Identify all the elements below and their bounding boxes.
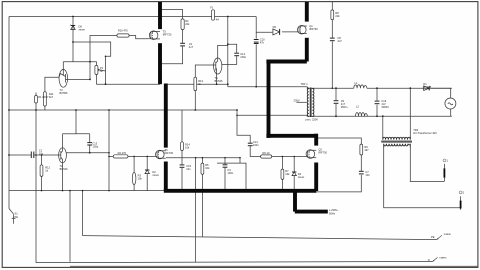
- svg-text:BC546: BC546: [215, 79, 223, 83]
- svg-text:zener: zener: [79, 28, 86, 32]
- wire D5 to Q1 gate: [282, 31, 299, 33]
- resistor R3: [132, 172, 136, 184]
- resistor R5: [201, 163, 204, 174]
- transistor Q5 mosfet: [155, 150, 166, 159]
- svg-text:IRF730: IRF730: [318, 150, 327, 154]
- resistor R1 sense: [35, 96, 38, 104]
- electrode E1: [443, 159, 446, 182]
- fuse F1 on top bus: [212, 10, 215, 20]
- svg-text:4n7: 4n7: [337, 39, 342, 43]
- junction bottom rail nodes: [41, 190, 110, 192]
- wire TR1 tap stub: [297, 101, 307, 103]
- wire thick segment F Q2 source: [314, 163, 318, 192]
- junction HV bus nodes: [236, 87, 411, 117]
- wire C16 column: [376, 88, 378, 100]
- wire x109 link: [108, 110, 110, 191]
- svg-text:10k: 10k: [138, 177, 143, 181]
- wire HV bottom bus y116.2: [236, 110, 238, 115]
- wire C13 column x89.7: [89, 134, 91, 142]
- diode D5: [273, 29, 280, 35]
- wire R8 C8 column x332.3: [331, 2, 333, 10]
- svg-text:mains: mains: [444, 232, 452, 236]
- wire D2 column: [146, 156, 148, 169]
- resistor R14: [181, 142, 184, 151]
- svg-text:250V~: 250V~: [341, 105, 349, 109]
- capacitor C8: [330, 38, 335, 41]
- svg-text:PE: PE: [431, 235, 435, 239]
- resistor R2: [113, 155, 128, 158]
- potentiometer P1: [95, 65, 99, 74]
- wire x90 column R10 feed: [90, 36, 117, 80]
- wire bottom rail thin: [9, 190, 164, 192]
- svg-text:10u: 10u: [39, 152, 44, 156]
- PE arrow: [437, 235, 442, 239]
- svg-text:L 230V~: L 230V~: [329, 208, 339, 212]
- junction mid rail nodes: [8, 109, 238, 111]
- resistor R9: [360, 144, 363, 155]
- wire T2 emitter: [62, 163, 64, 191]
- wire thick segment L Q1 drain to top: [305, 2, 309, 22]
- svg-text:IRF730: IRF730: [309, 27, 318, 31]
- svg-text:10k: 10k: [185, 145, 190, 149]
- wire thick HT rail segment A top: [158, 2, 162, 29]
- svg-text:R6 10: R6 10: [263, 151, 270, 155]
- svg-text:prim. 230V: prim. 230V: [306, 118, 319, 122]
- svg-text:PE: PE: [15, 215, 19, 219]
- wire T3 collector bus y61.7: [63, 62, 96, 66]
- wire thick bottom rail segment E: [164, 189, 317, 193]
- svg-text:100n: 100n: [227, 171, 233, 175]
- svg-text:R10 470: R10 470: [118, 29, 128, 33]
- wire Q2 gate chain from x237: [237, 115, 250, 143]
- svg-text:4A: 4A: [216, 18, 219, 22]
- wire x76 link to T2 stage: [76, 110, 90, 134]
- transformer TR2: [381, 136, 412, 147]
- wire R7 column: [281, 157, 283, 170]
- wire R5 column x200.4 to PE: [201, 158, 203, 163]
- wire thick mains L drop: [293, 191, 297, 212]
- svg-text:50Hz: 50Hz: [329, 212, 336, 216]
- wire C9 column: [335, 88, 337, 100]
- diode D1: [423, 86, 430, 91]
- svg-text:HV-Transformer 4kV: HV-Transformer 4kV: [413, 131, 437, 135]
- wire pot bottom drive y84: [95, 75, 97, 85]
- wire TR2 primary right feed: [409, 88, 411, 136]
- transformer TR1: [307, 87, 314, 117]
- svg-text:22k: 22k: [335, 14, 340, 18]
- wire N line: [36, 262, 433, 263]
- wire TR1 left top feed y86.7: [228, 86, 307, 88]
- wire C2 bottom to thick: [161, 47, 183, 64]
- wire x256 column bus corner: [256, 17, 272, 33]
- wire T3 emitter to R11: [45, 77, 59, 92]
- wire D1 to load circle: [431, 88, 450, 98]
- svg-text:zener: zener: [152, 173, 159, 177]
- wire R3 column: [133, 156, 135, 172]
- wire x36 down to N line: [35, 110, 37, 263]
- resistor R12: [40, 165, 43, 177]
- capacitor C10: [254, 40, 259, 44]
- svg-text:10n: 10n: [365, 173, 370, 177]
- wire TR2 primary left feed: [382, 116, 384, 136]
- junction driver stage nodes: [72, 41, 257, 88]
- capacitor C16: [375, 101, 380, 104]
- svg-text:BC546: BC546: [60, 167, 68, 171]
- transistor D4 mosfet: [148, 31, 160, 40]
- svg-text:3000V: 3000V: [381, 105, 389, 109]
- wire thick segment G Q2 drain: [314, 134, 318, 146]
- wire HV top bus y88.2: [307, 87, 354, 89]
- svg-text:D5: D5: [273, 25, 277, 29]
- wire thick segment C jog: [164, 84, 168, 148]
- capacitor C15: [180, 165, 185, 167]
- wire thick segment D below Q5: [164, 162, 168, 192]
- wire thick segment H horizontal y136.5: [266, 134, 316, 138]
- wire x70 to N: [69, 191, 71, 262]
- wire D6 column x73: [72, 17, 74, 62]
- wire left rail x9: [8, 17, 10, 209]
- wire T4 emitter: [216, 74, 218, 84]
- wire node A y42 to pot feed: [73, 42, 111, 84]
- wire x82.5 to PE: [82, 191, 84, 236]
- svg-text:10n: 10n: [186, 167, 191, 171]
- wire T2 out to R2 and Q5 gate: [66, 152, 109, 154]
- diode D2 zener: [145, 170, 149, 174]
- junction lower gate row nodes: [8, 152, 295, 159]
- resistor R7: [281, 169, 284, 179]
- svg-text:IRF730: IRF730: [163, 33, 172, 37]
- svg-text:100n: 100n: [253, 143, 259, 147]
- svg-text:230V: 230V: [294, 98, 300, 102]
- resistor R8: [331, 10, 334, 20]
- wire R13 column and T4 base: [195, 65, 213, 77]
- junction top bus nodes: [72, 16, 229, 18]
- svg-text:BC556: BC556: [60, 91, 68, 95]
- transistor T2: [59, 148, 67, 163]
- capacitor C2: [180, 43, 185, 46]
- transistor T4: [214, 58, 222, 74]
- inductor L1: [354, 85, 367, 88]
- wire snubber R9 C7 across Q2: [317, 138, 362, 144]
- wire C12 branch: [228, 44, 237, 52]
- wire x240 x246 link: [240, 158, 246, 191]
- svg-text:mains: mains: [440, 256, 448, 260]
- resistor R10: [117, 34, 129, 37]
- wire x227.8 column: [227, 17, 229, 87]
- diode D6 zener: [70, 25, 75, 30]
- transistor Q2 mosfet: [303, 150, 316, 159]
- capacitor C14: [248, 143, 253, 146]
- wire D3 column: [293, 157, 295, 173]
- resistor R4: [181, 19, 184, 30]
- svg-text:22k: 22k: [185, 22, 190, 26]
- svg-text:TRF 1: TRF 1: [301, 82, 309, 86]
- svg-text:S1: S1: [15, 212, 19, 216]
- capacitor C7: [359, 171, 364, 174]
- wire R12 column: [41, 155, 43, 165]
- resistor R6: [261, 155, 272, 158]
- wire R1 column x36: [35, 93, 37, 96]
- svg-text:4k7: 4k7: [49, 95, 54, 99]
- wire T4 collector: [218, 45, 228, 58]
- wire R14 C15 column x182: [181, 110, 183, 142]
- svg-text:IRF730: IRF730: [165, 151, 174, 155]
- wire thick segment I vertical x269.8: [267, 61, 271, 138]
- transistor T3: [59, 69, 68, 87]
- electrode E2: [459, 191, 462, 209]
- wire thick segment B below D4: [158, 43, 162, 84]
- wire thick segment K Q1 source: [305, 38, 309, 62]
- resistor R13: [194, 77, 197, 90]
- wire C3 column x225: [224, 158, 226, 165]
- wire R10 to D4 gate: [129, 36, 148, 39]
- svg-text:zener: zener: [298, 175, 305, 179]
- svg-text:4n7: 4n7: [189, 45, 194, 49]
- diode D3 zener: [292, 172, 296, 176]
- inductor L2: [356, 112, 368, 116]
- svg-text:10k: 10k: [205, 166, 210, 170]
- wire mid rail y110: [9, 109, 237, 111]
- wire top supply bus: [9, 16, 256, 18]
- svg-text:100u: 100u: [240, 55, 246, 59]
- wire PE line: [83, 236, 437, 240]
- wire T2 collector: [62, 134, 64, 148]
- wire thick mains L tail: [295, 210, 328, 214]
- wire Q5 source aux y157.7: [166, 157, 240, 159]
- capacitor C1: [30, 152, 37, 159]
- wire thick segment J horizontal y61.5: [266, 60, 306, 64]
- capacitor C3: [223, 165, 228, 167]
- svg-text:BY448: BY448: [423, 85, 431, 89]
- wire R4 column top jog: [160, 10, 182, 19]
- svg-text:R1 0R47: R1 0R47: [38, 95, 49, 99]
- capacitor C13: [87, 143, 92, 145]
- transistor Q1 mosfet: [298, 25, 307, 34]
- wire T2 base from C1: [9, 154, 30, 156]
- wire TR2 secondary right to electrode E1: [410, 148, 444, 182]
- capacitor C9: [334, 101, 339, 104]
- svg-text:4k7: 4k7: [364, 148, 369, 152]
- svg-text:47n: 47n: [260, 40, 265, 44]
- wire switch S1 bottom left: [9, 209, 14, 215]
- wire x195.6 to N: [195, 158, 197, 262]
- capacitor C12: [234, 53, 239, 56]
- wire pot wiper arrow: [99, 70, 106, 71]
- wire TR2 secondary left to electrode E2: [384, 148, 461, 210]
- svg-text:10k: 10k: [285, 172, 290, 176]
- N arrow: [433, 257, 438, 261]
- svg-text:100p: 100p: [92, 145, 98, 149]
- resistor R11: [44, 92, 47, 106]
- wire T3 base y79.4: [68, 78, 90, 80]
- svg-text:R2 470: R2 470: [118, 151, 127, 155]
- load circle AC: [445, 98, 456, 109]
- svg-text:N: N: [428, 258, 430, 262]
